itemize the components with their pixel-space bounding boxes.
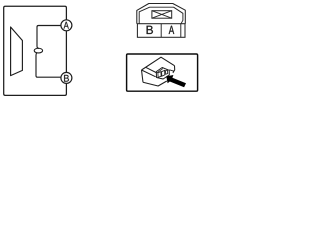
terminal A	[61, 20, 72, 31]
location box	[127, 54, 198, 91]
terminal block right end	[166, 70, 168, 74]
terminal slot 1	[158, 72, 161, 78]
cell line 2 (divider)	[160, 24, 162, 38]
terminal block outline	[156, 68, 169, 80]
horn coil	[34, 48, 42, 53]
label B	[147, 26, 153, 34]
wire A-B vertical	[65, 31, 67, 73]
label A	[169, 26, 175, 34]
terminal B	[61, 72, 72, 83]
wire from A to coil	[37, 26, 61, 49]
wire loop left/top/bottom	[4, 6, 67, 95]
connector 3d: left vertical edge	[142, 70, 144, 82]
lock tab rect with X	[152, 11, 172, 19]
connector housing inner wall	[139, 7, 183, 24]
wire from coil to B	[36, 53, 61, 77]
horn cone	[11, 27, 23, 76]
connector 3d: front-top edge	[142, 70, 156, 77]
terminal slot 2	[162, 70, 165, 76]
cell line 3	[180, 24, 182, 38]
connector 3d: bottom edges	[143, 81, 167, 86]
terminal cells rect	[137, 24, 185, 38]
connector 3d: block-to-edge step	[169, 70, 174, 71]
arrow	[166, 75, 186, 87]
connector 3d: top face edges	[142, 57, 175, 70]
connector 3d: right side edge	[173, 66, 175, 73]
terminal block top ridge	[157, 69, 163, 73]
lock tab X diagonals	[152, 11, 172, 19]
connector housing outer outline	[137, 4, 186, 24]
connector 3d: lid line	[146, 67, 157, 73]
